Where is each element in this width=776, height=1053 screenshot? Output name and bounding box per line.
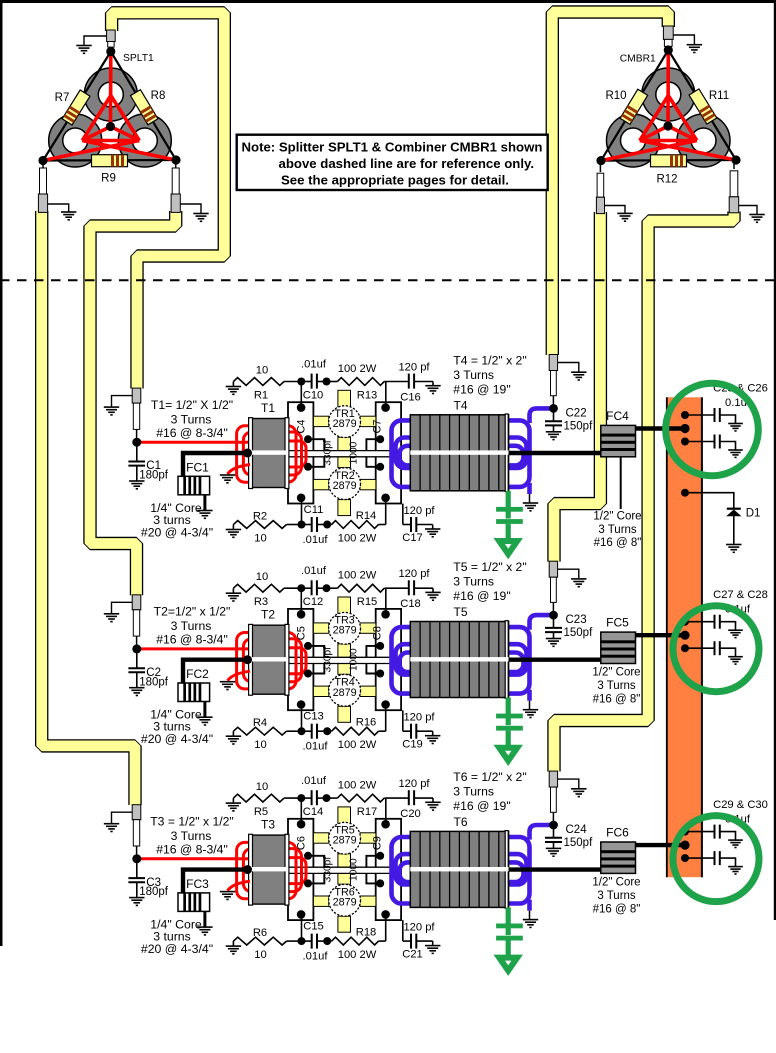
svg-text:R12: R12 bbox=[656, 174, 677, 186]
capacitor C18 120 pf bbox=[386, 587, 409, 589]
svg-text:1000: 1000 bbox=[349, 441, 360, 464]
node bus bar lower bbox=[681, 644, 689, 652]
svg-text:R15: R15 bbox=[357, 596, 378, 608]
svg-text:C29 & C30: C29 & C30 bbox=[713, 799, 768, 811]
transformer T5 core bbox=[410, 622, 508, 698]
svg-text:D1: D1 bbox=[746, 508, 761, 520]
svg-text:10: 10 bbox=[256, 571, 268, 583]
svg-text:C16: C16 bbox=[400, 392, 421, 404]
svg-text:100 2W: 100 2W bbox=[338, 739, 377, 751]
wire output of T4 bbox=[509, 451, 601, 455]
svg-text:120 pf: 120 pf bbox=[403, 505, 435, 517]
red input feed wire bbox=[137, 647, 248, 650]
svg-text:T4 = 1/2" x 2": T4 = 1/2" x 2" bbox=[453, 354, 526, 368]
capacitor C23 150pf bbox=[553, 615, 555, 628]
blue wire to bypass node bbox=[530, 408, 554, 423]
svg-text:#20 @ 4-3/4": #20 @ 4-3/4" bbox=[141, 942, 213, 956]
svg-text:R14: R14 bbox=[356, 510, 377, 522]
wire coax SPLT1 port3 to row3 input bbox=[42, 211, 135, 805]
node column dots bbox=[297, 403, 306, 412]
transistor TR6 leads bbox=[313, 896, 376, 932]
svg-text:#16 @ 19": #16 @ 19" bbox=[453, 589, 510, 603]
svg-text:100 2W: 100 2W bbox=[338, 780, 377, 792]
svg-text:C4: C4 bbox=[296, 419, 308, 433]
CMBR1 red wiring web bbox=[601, 50, 736, 161]
transformer T4 core bbox=[410, 415, 508, 491]
green capacitor under output transformer bbox=[506, 491, 511, 519]
svg-text:R5: R5 bbox=[254, 806, 268, 818]
capacitor C24 150pf bbox=[553, 825, 555, 838]
svg-text:T5: T5 bbox=[453, 605, 467, 619]
ground at C24 connector bbox=[558, 779, 579, 789]
capacitor strip between TR1 and TR2 bbox=[338, 437, 351, 467]
svg-text:2879: 2879 bbox=[333, 418, 357, 430]
transistor TR4 leads bbox=[313, 686, 376, 722]
svg-text:R8: R8 bbox=[151, 90, 166, 102]
wire FC5 to bus bar bbox=[636, 633, 687, 637]
coax center channel through columns bbox=[289, 867, 400, 873]
svg-text:.01uf: .01uf bbox=[301, 565, 327, 577]
winding of T1 (red) bbox=[237, 426, 306, 482]
node column dots bbox=[297, 820, 306, 829]
blue wire to ground bbox=[527, 483, 532, 494]
svg-text:3 Turns: 3 Turns bbox=[597, 890, 636, 902]
ferrite choke FC3 bbox=[178, 893, 210, 912]
blue wire to ground bbox=[527, 690, 532, 701]
svg-text:C11: C11 bbox=[304, 504, 324, 516]
node column dots bbox=[297, 610, 306, 619]
node bus bar upper bbox=[681, 828, 689, 836]
ferrite choke FC5 bbox=[601, 632, 636, 663]
svg-text:180pf: 180pf bbox=[139, 470, 169, 482]
capacitor C13 .01uf bbox=[302, 730, 312, 732]
svg-text:C27 & C28: C27 & C28 bbox=[713, 589, 768, 601]
transistor TR3 leads bbox=[313, 597, 376, 633]
svg-text:150pf: 150pf bbox=[564, 421, 594, 433]
svg-text:#16 @ 19": #16 @ 19" bbox=[453, 383, 510, 397]
node row input bbox=[132, 438, 141, 447]
ground at row input connector bbox=[112, 602, 133, 614]
SPLT1 toroid 3 bbox=[118, 114, 171, 167]
transistor TR5 leads bbox=[313, 807, 376, 843]
svg-text:#20 @ 4-3/4": #20 @ 4-3/4" bbox=[141, 526, 213, 540]
svg-text:FC4: FC4 bbox=[606, 409, 629, 423]
node R1-C10 bbox=[297, 378, 305, 386]
resistor R3 10 bbox=[232, 588, 234, 593]
svg-text:.01uf: .01uf bbox=[301, 775, 327, 787]
svg-text:T6 = 1/2" x 2": T6 = 1/2" x 2" bbox=[453, 770, 526, 784]
svg-text:1000: 1000 bbox=[349, 648, 360, 671]
svg-text:#16 @ 8-3/4": #16 @ 8-3/4" bbox=[156, 426, 228, 440]
svg-text:R10: R10 bbox=[605, 90, 626, 102]
blue wire to ground bbox=[527, 900, 532, 911]
svg-text:T1= 1/2" X 1/2": T1= 1/2" X 1/2" bbox=[151, 398, 233, 412]
ferrite choke FC3 ground lead bbox=[203, 911, 206, 927]
svg-text:#16 @ 8": #16 @ 8" bbox=[593, 694, 641, 706]
resistor R12 bbox=[651, 155, 687, 167]
svg-text:T3 = 1/2" x 1/2": T3 = 1/2" x 1/2" bbox=[150, 815, 234, 829]
transistor TR2 bbox=[329, 468, 361, 500]
SPLT1 port2 connector bbox=[42, 161, 44, 169]
svg-text:#20 @ 4-3/4": #20 @ 4-3/4" bbox=[141, 732, 213, 746]
DC bus bar bbox=[666, 397, 702, 877]
capacitor strip between TR3 and TR4 bbox=[338, 644, 351, 674]
coax center channel through columns bbox=[289, 657, 400, 663]
svg-text:#16 @ 8-3/4": #16 @ 8-3/4" bbox=[156, 843, 228, 857]
resistor R14 100 2W bbox=[327, 524, 331, 526]
capacitor C16 120 pf bbox=[386, 381, 409, 383]
svg-text:R13: R13 bbox=[357, 390, 378, 402]
capacitor C20 120 pf bbox=[386, 797, 409, 799]
wire feed to input transformer bbox=[183, 870, 248, 893]
red winding ground stub bbox=[228, 465, 251, 475]
coax center channel through columns bbox=[289, 451, 400, 457]
svg-text:100 2W: 100 2W bbox=[338, 570, 377, 582]
svg-text:FC6: FC6 bbox=[606, 826, 629, 840]
svg-text:FC5: FC5 bbox=[606, 616, 629, 630]
coupling capacitor left bracket bbox=[308, 439, 324, 451]
node C22 bbox=[549, 404, 558, 413]
resistor R16 100 2W bbox=[327, 730, 331, 732]
svg-text:C15: C15 bbox=[303, 921, 324, 933]
wire coax SPLT1 port2 to row2 input bbox=[90, 211, 176, 595]
ferrite choke FC4 bbox=[601, 425, 636, 456]
svg-text:C24: C24 bbox=[566, 824, 588, 836]
svg-text:180pf: 180pf bbox=[139, 886, 169, 898]
transistor TR1 bbox=[329, 406, 361, 438]
row input coax connector bbox=[132, 805, 141, 820]
SPLT1 port3 connector bbox=[175, 160, 177, 168]
blue wire to bypass node bbox=[530, 825, 554, 840]
capacitor C22 150pf bbox=[553, 408, 555, 421]
green arrow to next page bbox=[499, 541, 517, 554]
ground at SPLT1 top connector bbox=[84, 36, 107, 46]
capacitor column C6 bbox=[288, 819, 313, 920]
green capacitor under output transformer bbox=[506, 907, 511, 935]
bypass capacitor C29 bbox=[685, 831, 715, 833]
wire FC4 to bus bar bbox=[636, 426, 687, 430]
winding of T5 (blue) bbox=[392, 627, 530, 694]
transistor TR4 bbox=[329, 674, 361, 706]
svg-text:T1: T1 bbox=[261, 401, 275, 415]
node R5-C14 bbox=[297, 794, 305, 802]
node feed at T3 bbox=[243, 865, 252, 874]
node C24 bbox=[549, 821, 558, 830]
winding of T6 (blue) bbox=[392, 837, 530, 904]
node row input bbox=[132, 644, 141, 653]
svg-text:R3: R3 bbox=[254, 596, 268, 608]
svg-text:C23: C23 bbox=[566, 614, 587, 626]
node R6-C15 bbox=[298, 937, 306, 945]
svg-text:1/2" Core: 1/2" Core bbox=[592, 877, 640, 889]
CMBR1 port2 connector bbox=[599, 161, 601, 172]
svg-text:2879: 2879 bbox=[333, 687, 357, 699]
combiner CMBR1 top connector bbox=[663, 26, 673, 39]
svg-text:above dashed line are for refe: above dashed line are for reference only… bbox=[279, 156, 535, 171]
ground at CMBR1 port3 connector bbox=[739, 206, 757, 215]
svg-text:C13: C13 bbox=[303, 711, 324, 723]
ground at CMBR1 top connector bbox=[673, 35, 694, 45]
svg-text:R4: R4 bbox=[253, 717, 267, 729]
svg-text:150pf: 150pf bbox=[564, 627, 594, 639]
svg-text:120 pf: 120 pf bbox=[403, 712, 435, 724]
bypass capacitor C26 bbox=[685, 441, 715, 443]
CMBR1 triangle edges bbox=[601, 50, 736, 161]
svg-text:120 pf: 120 pf bbox=[398, 568, 430, 580]
svg-text:R7: R7 bbox=[55, 92, 70, 104]
transistor TR3 bbox=[329, 612, 361, 644]
svg-text:R2: R2 bbox=[253, 511, 267, 523]
svg-text:3 Turns: 3 Turns bbox=[453, 785, 494, 799]
svg-text:2879: 2879 bbox=[333, 625, 357, 637]
svg-text:R6: R6 bbox=[253, 927, 267, 939]
svg-text:C22: C22 bbox=[566, 407, 587, 419]
svg-text:C6: C6 bbox=[296, 836, 308, 850]
capacitor C14 .01uf bbox=[301, 797, 311, 799]
svg-text:FC3: FC3 bbox=[186, 877, 209, 891]
svg-text:See the appropriate pages for: See the appropriate pages for detail. bbox=[281, 173, 509, 188]
capacitor column C5 bbox=[288, 609, 313, 710]
capacitor C21 120 pf bbox=[402, 920, 404, 941]
svg-text:10: 10 bbox=[254, 949, 266, 961]
coupling capacitor right bracket bbox=[366, 646, 380, 658]
svg-text:Note: Splitter SPLT1 & Combine: Note: Splitter SPLT1 & Combiner CMBR1 sh… bbox=[242, 140, 543, 155]
resistor R17 100 2W bbox=[327, 797, 338, 799]
green circle around C27 C28 bbox=[673, 606, 759, 692]
coupling capacitor left bracket bbox=[308, 646, 324, 658]
ground at row input connector bbox=[112, 812, 133, 824]
resistor R18 100 2W bbox=[327, 940, 331, 942]
svg-text:180pf: 180pf bbox=[139, 676, 169, 688]
capacitor C3 180pf bbox=[136, 859, 138, 878]
svg-text:2879: 2879 bbox=[333, 835, 357, 847]
svg-text:R11: R11 bbox=[709, 90, 729, 102]
svg-text:3 Turns: 3 Turns bbox=[598, 524, 637, 536]
bypass capacitor C30 bbox=[685, 857, 715, 859]
svg-text:T2: T2 bbox=[261, 608, 275, 622]
svg-text:100 2W: 100 2W bbox=[338, 363, 377, 375]
green circle around C25 C26 bbox=[666, 383, 759, 476]
svg-text:R1: R1 bbox=[254, 390, 268, 402]
capacitor column C7 bbox=[376, 402, 401, 503]
resistor R15 100 2W bbox=[327, 587, 338, 589]
transistor TR1 leads bbox=[313, 390, 376, 426]
node C23 bbox=[549, 611, 558, 620]
CMBR1 node bottom-right vertex bbox=[731, 155, 740, 164]
capacitor C2 180pf bbox=[136, 649, 138, 668]
svg-text:#16 @ 19": #16 @ 19" bbox=[453, 799, 510, 813]
capacitor column C8 bbox=[376, 609, 401, 710]
SPLT1 triangle edges bbox=[43, 52, 176, 161]
FC4 spec pointer bbox=[620, 457, 622, 509]
ground at CMBR1 port2 connector bbox=[605, 206, 626, 214]
dashed separator line bbox=[0, 279, 776, 281]
svg-text:FC2: FC2 bbox=[186, 667, 209, 681]
svg-text:FC1: FC1 bbox=[186, 461, 209, 475]
ground at C22 connector bbox=[558, 363, 579, 373]
svg-text:120 pf: 120 pf bbox=[398, 778, 430, 790]
wire feed to input transformer bbox=[183, 453, 248, 476]
note box bbox=[237, 135, 548, 190]
wire FC6 to bus bar bbox=[636, 843, 687, 847]
node feed at T2 bbox=[243, 655, 252, 664]
svg-text:#16 @ 8": #16 @ 8" bbox=[594, 537, 642, 549]
svg-text:C17: C17 bbox=[402, 532, 423, 544]
svg-text:2879: 2879 bbox=[333, 897, 357, 909]
bypass capacitor C28 bbox=[685, 647, 715, 649]
svg-text:3 Turns: 3 Turns bbox=[597, 680, 636, 692]
svg-text:T2=1/2" x 1/2": T2=1/2" x 1/2" bbox=[154, 605, 231, 619]
wire feed to input transformer bbox=[183, 660, 248, 683]
coupling capacitor right bracket bbox=[366, 856, 380, 868]
svg-text:R16: R16 bbox=[356, 717, 377, 729]
bypass capacitor C27 bbox=[685, 621, 715, 623]
node bus bar lower bbox=[681, 438, 689, 446]
capacitor C11 .01uf bbox=[302, 524, 312, 526]
svg-text:10: 10 bbox=[254, 533, 266, 545]
coupling capacitor left bracket bbox=[308, 856, 324, 868]
SPLT1 toroid 1 bbox=[84, 68, 137, 121]
svg-text:3 Turns: 3 Turns bbox=[171, 619, 212, 633]
node R4-C13 bbox=[298, 727, 306, 735]
transformer T3 core bbox=[251, 835, 288, 904]
resistor R9 bbox=[92, 155, 128, 167]
coax connector above C24 bbox=[549, 771, 557, 787]
bypass capacitor C25 bbox=[685, 414, 715, 416]
svg-text:3 Turns: 3 Turns bbox=[171, 829, 212, 843]
node bus bar lower bbox=[681, 854, 689, 862]
winding of T4 (blue) bbox=[392, 420, 530, 487]
svg-text:120 pf: 120 pf bbox=[398, 362, 430, 374]
ferrite choke FC1 ground lead bbox=[203, 495, 206, 511]
coax connector above C22 bbox=[549, 355, 557, 371]
svg-text:10: 10 bbox=[254, 739, 266, 751]
svg-text:2879: 2879 bbox=[333, 480, 357, 492]
capacitor strip between TR5 and TR6 bbox=[338, 854, 351, 884]
ferrite choke FC6 bbox=[601, 842, 636, 873]
ground at row input connector bbox=[112, 396, 133, 408]
ferrite choke FC2 bbox=[178, 683, 210, 702]
SPLT1 node bottom-right vertex bbox=[171, 155, 180, 164]
node bus bar upper bbox=[681, 618, 689, 626]
node feed at T1 bbox=[243, 449, 252, 458]
svg-text:C9: C9 bbox=[372, 836, 384, 850]
coupling capacitor right bracket bbox=[366, 439, 380, 451]
CMBR1 toroid 2 bbox=[607, 114, 660, 167]
transistor TR2 leads bbox=[313, 479, 376, 515]
capacitor C12 .01uf bbox=[301, 587, 311, 589]
ground at C23 connector bbox=[558, 569, 579, 579]
SPLT1 toroid 2 bbox=[49, 114, 102, 167]
CMBR1 node top vertex bbox=[664, 45, 673, 54]
svg-text:.01uf: .01uf bbox=[303, 951, 329, 963]
wire coax CMBR1 port2 to row2 C23 bbox=[554, 212, 600, 562]
svg-text:.01uf: .01uf bbox=[303, 534, 329, 546]
node R3-C12 bbox=[297, 584, 305, 592]
node bus bar feed bbox=[680, 841, 689, 850]
node bus bar D1 tap bbox=[681, 489, 689, 497]
svg-text:C14: C14 bbox=[303, 806, 324, 818]
svg-text:C7: C7 bbox=[372, 419, 384, 433]
svg-text:R9: R9 bbox=[101, 173, 116, 185]
svg-text:C10: C10 bbox=[303, 390, 324, 402]
resistor R1 10 bbox=[232, 382, 234, 387]
node bus bar feed bbox=[680, 424, 689, 433]
svg-text:.01uf: .01uf bbox=[301, 359, 327, 371]
diode D1 bbox=[685, 493, 734, 509]
SPLT1 red wiring web bbox=[43, 52, 176, 161]
resistor R11 bbox=[689, 89, 717, 124]
svg-text:1/2" Core: 1/2" Core bbox=[593, 511, 641, 523]
resistor R2 10 bbox=[232, 525, 234, 530]
blue wire to bypass node bbox=[530, 615, 554, 630]
resistor R5 10 bbox=[232, 798, 234, 803]
svg-text:3 Turns: 3 Turns bbox=[453, 368, 494, 382]
svg-text:C5: C5 bbox=[296, 626, 308, 640]
svg-text:C12: C12 bbox=[303, 596, 324, 608]
ground at SPLT1 port2 connector bbox=[48, 204, 69, 212]
winding of T3 (red) bbox=[237, 842, 306, 898]
CMBR1 port3 connector bbox=[733, 160, 735, 169]
capacitor C10 .01uf bbox=[301, 381, 311, 383]
row input coax connector bbox=[132, 595, 141, 610]
ground at SPLT1 port3 connector bbox=[180, 204, 201, 214]
ferrite choke FC2 ground lead bbox=[203, 702, 206, 718]
svg-text:SPLT1: SPLT1 bbox=[123, 53, 154, 64]
capacitor C1 180pf bbox=[136, 442, 138, 461]
capacitor column C9 bbox=[376, 819, 401, 920]
svg-text:T4: T4 bbox=[453, 399, 467, 413]
wire coax CMBR1 output loop to row1 C22 bbox=[552, 12, 668, 355]
transistor TR5 bbox=[329, 822, 361, 854]
wire output of T6 bbox=[509, 867, 601, 871]
svg-text:C18: C18 bbox=[400, 598, 421, 610]
red input feed wire bbox=[137, 441, 248, 444]
wire output of T5 bbox=[509, 658, 601, 662]
ferrite choke FC1 bbox=[178, 476, 210, 495]
transformer T1 core bbox=[251, 419, 288, 488]
svg-text:10: 10 bbox=[256, 781, 268, 793]
capacitor C17 120 pf bbox=[402, 504, 404, 525]
svg-text:.01uf: .01uf bbox=[303, 741, 329, 753]
svg-text:C19: C19 bbox=[402, 739, 423, 751]
svg-text:T6: T6 bbox=[453, 815, 467, 829]
svg-text:3 Turns: 3 Turns bbox=[453, 575, 494, 589]
resistor R8 bbox=[130, 90, 157, 125]
SPLT1 center node bbox=[106, 122, 115, 131]
svg-text:C8: C8 bbox=[372, 626, 384, 640]
capacitor column C4 bbox=[288, 402, 313, 503]
svg-text:#16 @ 8-3/4": #16 @ 8-3/4" bbox=[156, 633, 228, 647]
transformer T2 core bbox=[251, 625, 288, 694]
svg-text:R18: R18 bbox=[356, 927, 377, 939]
node R2-C11 bbox=[298, 521, 306, 529]
svg-text:T5 = 1/2" x 2": T5 = 1/2" x 2" bbox=[453, 560, 526, 574]
svg-text:100 2W: 100 2W bbox=[338, 949, 377, 961]
svg-text:1/2" Core: 1/2" Core bbox=[592, 667, 640, 679]
svg-text:C20: C20 bbox=[400, 808, 421, 820]
svg-text:CMBR1: CMBR1 bbox=[620, 54, 656, 65]
red winding ground stub bbox=[228, 881, 251, 891]
node row input bbox=[132, 854, 141, 863]
green arrow to next page bbox=[499, 958, 517, 971]
green circle around C29 C30 bbox=[673, 816, 759, 902]
red winding ground stub bbox=[228, 671, 251, 681]
wire coax SPLT1 input loop to row1 input bbox=[112, 13, 225, 389]
node bus bar upper bbox=[681, 411, 689, 419]
splitter SPLT1 top connector bbox=[107, 30, 116, 42]
svg-text:T3: T3 bbox=[261, 818, 275, 832]
